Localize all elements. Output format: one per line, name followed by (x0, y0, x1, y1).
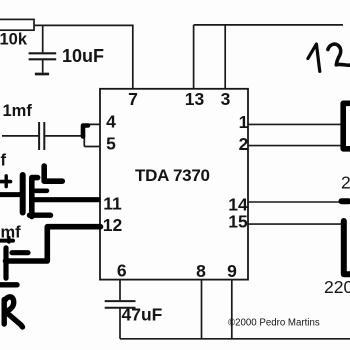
svg-text:4: 4 (106, 112, 116, 132)
wire pin 14 (248, 201, 339, 203)
capacitor C1 10uF (29, 53, 57, 73)
handwritten 12 supply note (308, 44, 350, 71)
speaker bracket (343, 103, 350, 149)
wire C5 to pin 12 (6, 227, 101, 261)
wire rail to pin 3 (224, 25, 226, 89)
svg-text:15: 15 (228, 211, 248, 231)
svg-text:©2000 Pedro Martins: ©2000 Pedro Martins (228, 317, 320, 328)
capacitor C4 left plate (20, 175, 26, 213)
plus polarity mark R input (0, 238, 13, 242)
svg-text:12: 12 (103, 215, 123, 235)
wire pin 15 (248, 223, 341, 225)
minus polarity mark (36, 189, 48, 194)
wire L input (0, 192, 21, 197)
svg-text:1mf: 1mf (3, 102, 33, 120)
marker joint wire to pin 4 (83, 126, 88, 137)
wire pin 9 to bus (231, 280, 233, 339)
capacitor C4 right plate (32, 178, 38, 217)
svg-text:220: 220 (324, 277, 350, 297)
letter L (44, 166, 62, 181)
wire pin 1 to speaker (248, 123, 341, 125)
wire junction to C1 (42, 25, 44, 52)
wire C2 to pins 4/5 (45, 136, 84, 147)
svg-text:2: 2 (239, 134, 249, 154)
svg-text:1: 1 (239, 112, 249, 132)
svg-text:6: 6 (117, 260, 127, 280)
svg-text:10uF: 10uF (62, 46, 104, 66)
svg-text:9: 9 (227, 261, 237, 281)
wire rail to pin 13 (193, 25, 195, 89)
12V supply rail (194, 24, 343, 26)
capacitor 220uF stroke (344, 221, 350, 274)
minus polarity mark (12, 250, 28, 255)
svg-text:7: 7 (128, 89, 138, 109)
svg-text:11: 11 (103, 194, 122, 214)
stub below C4 (30, 212, 51, 217)
svg-text:3: 3 (221, 89, 231, 109)
wire pin 2 to speaker (248, 145, 341, 147)
svg-text:f: f (1, 151, 7, 169)
svg-text:8: 8 (196, 261, 206, 281)
svg-text:2: 2 (341, 173, 350, 193)
ground (35, 73, 49, 76)
capacitor C3 47uF (105, 301, 136, 339)
capacitor C5 plate (3, 248, 8, 278)
wire input to C2 (2, 135, 38, 137)
wire C4 to pin 11 (30, 197, 101, 202)
ground bus (120, 338, 350, 340)
pin 5 stub (84, 146, 100, 148)
wire pin 8 to bus (201, 280, 203, 339)
wire resistor to pin 7 (34, 25, 133, 88)
wire pin 6 to C3 (119, 280, 121, 301)
plus polarity mark L input (1, 176, 11, 187)
capacitor C2 1mf (39, 122, 44, 150)
pin 4 stub (83, 123, 101, 125)
svg-text:13: 13 (185, 89, 205, 109)
resistor R1 10k (0, 19, 34, 30)
op-amp U1 TDA7370 body (100, 89, 248, 280)
svg-text:47uF: 47uF (122, 304, 163, 324)
svg-text:5: 5 (106, 134, 116, 154)
svg-text:TDA 7370: TDA 7370 (135, 166, 210, 185)
ink blob at pin 14 wire end (342, 198, 349, 204)
svg-text:10k: 10k (0, 30, 28, 48)
letter R (4, 297, 22, 327)
wire R input (0, 282, 17, 287)
